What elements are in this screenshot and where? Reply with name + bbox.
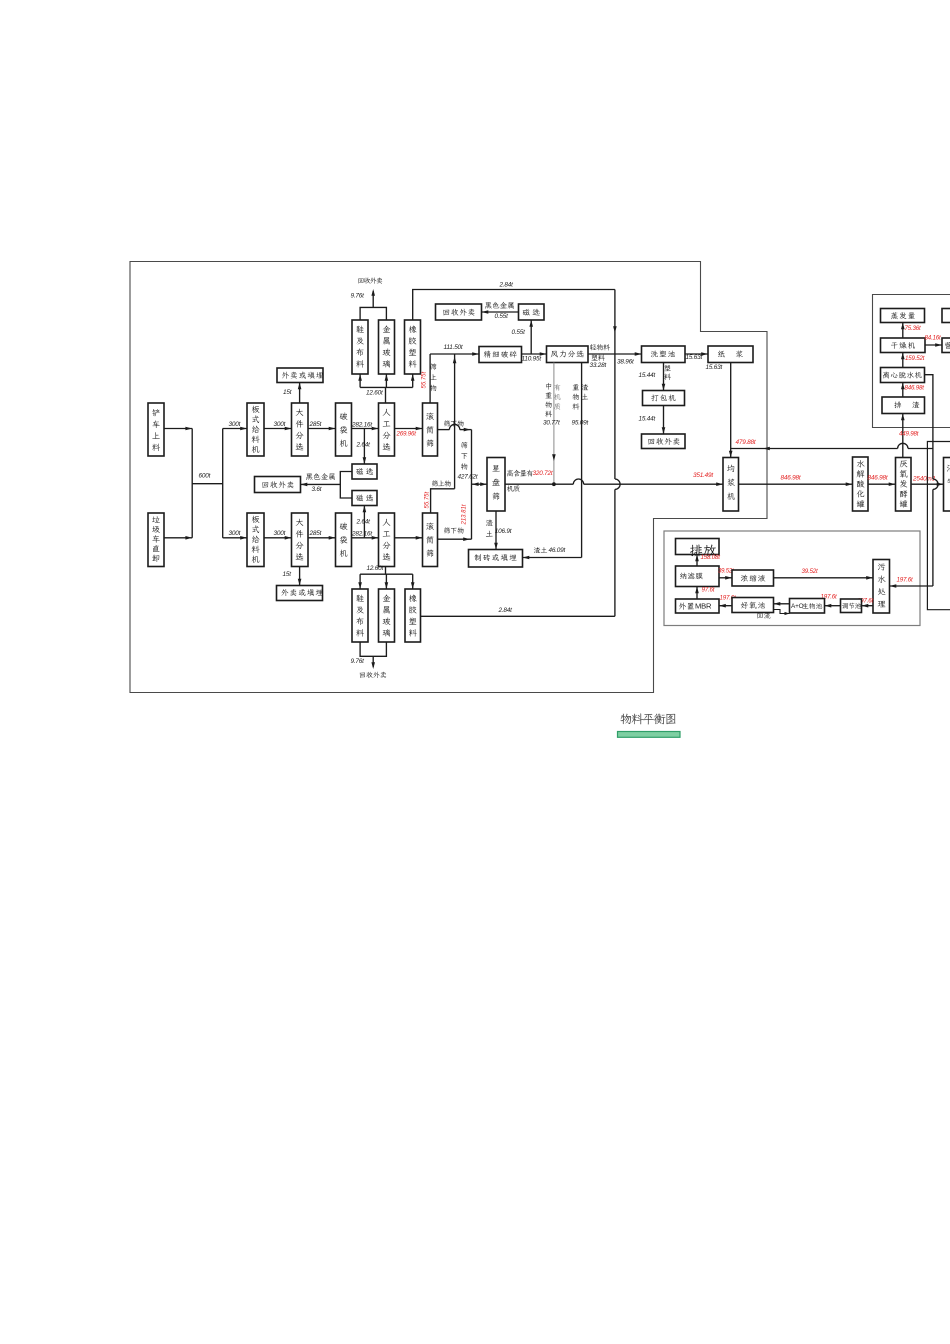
box 滚筒筛 bottom <box>423 513 438 567</box>
label 106.9t <box>495 528 512 535</box>
label 285t b <box>309 530 322 537</box>
label 110.95t <box>522 356 542 363</box>
box 星盘筛 <box>487 458 505 512</box>
svg-text:84.16t: 84.16t <box>925 335 941 342</box>
svg-text:269.96t: 269.96t <box>396 430 417 437</box>
wire 渣土 left into 制砖或填埋 <box>523 556 582 560</box>
svg-text:39.52t: 39.52t <box>802 568 818 575</box>
wire 污水处理 to 调节池 <box>862 604 874 608</box>
label 449.98t red <box>899 430 919 437</box>
wire arrow into 橡胶塑料 1 <box>411 374 415 387</box>
box 精细破碎 <box>479 347 522 363</box>
label 846.98t red c <box>905 384 925 391</box>
box 回收外卖 top2 <box>436 304 482 320</box>
svg-text:427.62t: 427.62t <box>458 474 478 481</box>
label 158.08t red <box>701 554 721 561</box>
svg-text:2.84t: 2.84t <box>498 607 513 614</box>
label 2540m3 red <box>912 476 936 483</box>
label 427.62t <box>458 474 478 481</box>
box 磁选 1 <box>352 464 377 479</box>
label 塑料 vertical <box>664 365 671 380</box>
label title 物料平衡图 <box>620 713 675 724</box>
wire sold arrow down bottom <box>371 656 375 669</box>
box 营养土 clipped <box>942 338 950 353</box>
label 黑色金属 top <box>485 302 514 309</box>
wire 垃圾车直卸 to merge <box>164 536 192 540</box>
box 橡胶塑料 1 <box>405 320 421 374</box>
wire main line 星盘筛 to 均浆机 <box>505 479 723 486</box>
wire 均浆机 to 水解酸化罐 <box>739 482 853 486</box>
svg-text:9.76t: 9.76t <box>351 658 365 665</box>
wire 橡胶塑料 2 right 2.84t <box>421 615 615 617</box>
box 好氧池 <box>732 598 774 613</box>
label 15.63t a <box>686 354 703 361</box>
wire 星盘筛 down 渣土 <box>494 511 498 550</box>
svg-text:282.16t: 282.16t <box>351 422 372 429</box>
label 39.52t red b <box>802 568 818 575</box>
panel wastewater treatment (bottom right) border <box>664 531 920 626</box>
wire 纳滤膜 to 排放 <box>695 555 699 567</box>
wire 水解酸化罐 to 厌氧发酵罐 <box>868 482 896 486</box>
box 垃圾车直卸 <box>148 513 164 567</box>
wire 人工分选 to 滚筒筛 top <box>395 427 423 431</box>
wire arrow into 鞋及布料 1 <box>358 374 362 387</box>
label 111.50t <box>444 344 463 351</box>
wire 离心脱水机 to 干燥机 <box>901 353 905 368</box>
label 回流 <box>757 612 770 618</box>
label 2.84t b <box>498 607 513 614</box>
label 75.36t red <box>905 325 921 332</box>
wire overs collector A <box>453 354 457 489</box>
wire arrow into 金属玻璃 1 <box>385 374 389 387</box>
box 破袋机 bottom <box>336 513 352 567</box>
svg-text:15.44t: 15.44t <box>639 416 656 423</box>
wire distributor top <box>360 386 413 388</box>
svg-text:479.88t: 479.88t <box>736 439 756 446</box>
wire 600t link <box>192 483 223 485</box>
wire 滚筒筛 2 overs staircase <box>431 489 455 513</box>
label 中重物料 vertical <box>545 383 552 417</box>
label 479.88t red <box>736 439 756 446</box>
box 制砖或填埋 <box>469 550 523 568</box>
wire arrow into 橡胶塑料 2 <box>411 574 415 589</box>
svg-text:300t: 300t <box>229 421 241 428</box>
svg-text:55.75t: 55.75t <box>424 491 430 508</box>
label 12.60t a <box>366 390 383 397</box>
svg-text:38.96t: 38.96t <box>617 358 634 365</box>
wire 大件分选 to 破袋机 bottom <box>308 536 336 540</box>
wire water return 479.88t <box>731 443 933 450</box>
box 破袋机 top <box>336 403 352 456</box>
box 滚筒筛 top <box>423 403 438 456</box>
label 渣土 vertical b <box>582 384 589 400</box>
label 高含量有机质 320.72t <box>507 470 553 492</box>
wire 滚筒筛 1 unders right <box>438 424 472 431</box>
panel sludge treatment (top right) border <box>873 295 950 428</box>
label 15.44t b <box>639 416 656 423</box>
label 55.75t red top <box>422 371 428 388</box>
box A+O生物池 <box>790 599 825 614</box>
svg-text:MBR: MBR <box>695 602 712 611</box>
wire 外置MBR to 纳滤膜 <box>695 587 699 600</box>
label 300t d <box>274 530 286 537</box>
label 38.96t <box>617 358 634 365</box>
box 蒸发量 neighbor clipped <box>942 309 950 323</box>
svg-text:97.6t: 97.6t <box>702 586 715 593</box>
box 大件分选 top <box>292 403 309 456</box>
box 打包机 <box>643 391 685 406</box>
svg-text:15.63t: 15.63t <box>686 354 703 361</box>
label 15.44t a <box>639 372 656 379</box>
wire 厌氧发酵罐 to 排渣 <box>901 414 905 458</box>
label 12.60t b <box>367 565 384 572</box>
box 离心脱水机 <box>881 368 925 383</box>
panel main process area border <box>130 262 767 693</box>
label 846.98t red b <box>868 474 888 481</box>
wire 人工分选 to 滚筒筛 bottom <box>395 536 423 540</box>
svg-text:159.52t: 159.52t <box>905 355 925 362</box>
box 调节池 <box>841 599 862 613</box>
wire 滚筒筛 1 overs up <box>429 354 431 403</box>
title underline green bar <box>618 732 681 738</box>
label 有机质 vertical <box>554 384 561 410</box>
svg-text:351.49t: 351.49t <box>693 472 713 479</box>
label 269.96t red <box>396 430 417 437</box>
svg-text:12.60t: 12.60t <box>367 565 384 572</box>
wire 滚筒筛 2 unders right <box>438 537 472 541</box>
wire 破袋机 to 人工分选 bottom <box>352 536 379 540</box>
wire arrow into 鞋及布料 2 <box>358 574 362 589</box>
svg-text:2540m3: 2540m3 <box>912 476 936 483</box>
box 人工分选 top <box>379 403 395 456</box>
label 300t c <box>229 530 241 537</box>
svg-text:320.72t: 320.72t <box>533 470 553 477</box>
box 回收外卖 mid <box>255 477 301 493</box>
wire merge vertical <box>191 429 193 538</box>
svg-text:2.64t: 2.64t <box>356 519 371 526</box>
label 15.63t b <box>706 364 723 371</box>
label 筛下物 bottom <box>444 527 463 534</box>
label 筛下物 top <box>444 420 463 427</box>
box 大件分选 bottom <box>292 513 309 567</box>
label 9.76t b <box>351 658 365 665</box>
wire 精细破碎 to 风力分选 <box>522 352 547 356</box>
label 15t b <box>283 571 292 578</box>
box 鞋及布料 1 <box>352 320 368 374</box>
wire 回流 return <box>774 610 790 616</box>
wire 纳滤膜 to 浓缩液 <box>719 576 732 580</box>
label 282.16t b <box>351 531 372 538</box>
wire sold arrow up top <box>371 289 375 307</box>
wire 风力分选 to 洗塑池 <box>588 352 642 356</box>
wire 鞋及布料+金属玻璃 bottoms join <box>360 642 386 656</box>
wire tap to 磁选 1 <box>363 429 367 465</box>
svg-text:846.98t: 846.98t <box>868 474 888 481</box>
label 回收外卖 top text <box>358 277 382 283</box>
label 300t a <box>229 421 241 428</box>
wire arrow into 金属玻璃 2 <box>385 574 389 589</box>
box 浓缩液 <box>732 570 774 586</box>
wire 橡胶塑料 1 up and right 2.84t <box>413 290 615 321</box>
wire 干燥机 to 蒸发量 <box>901 323 905 339</box>
wire split to 板式给料机 top <box>223 427 247 431</box>
label 筛上物 vertical top <box>430 363 437 391</box>
wire 人工分选 bottom stub down <box>385 567 387 575</box>
label 197.6t red e <box>857 598 873 605</box>
svg-text:15t: 15t <box>283 571 292 578</box>
svg-text:213.81t: 213.81t <box>461 504 467 525</box>
wire 打包机 to 回收外卖 <box>662 406 666 435</box>
label 0.55t b <box>512 329 526 336</box>
label 2.84t a <box>499 282 514 289</box>
wire 板式给料机 to 大件分选 bottom <box>264 536 292 540</box>
wire overs header to 精细破碎 <box>430 352 479 356</box>
box 排渣 <box>882 397 925 414</box>
label 9.76t a <box>351 293 365 300</box>
label 筛下物 vertical <box>461 442 467 470</box>
label 渣土 vertical a <box>486 519 493 536</box>
box 蒸发量 <box>881 309 925 323</box>
svg-text:197.6t: 197.6t <box>897 577 913 584</box>
svg-text:300t: 300t <box>229 530 241 537</box>
box 外置MBR <box>676 599 720 613</box>
wire water into 污水处理 <box>890 584 933 588</box>
box 橡胶塑料 2 <box>405 589 421 642</box>
label 15t a <box>283 389 292 396</box>
svg-text:95.09t: 95.09t <box>572 420 589 427</box>
wire 洗塑池 to 打包机 <box>662 363 666 391</box>
box 板式给料机 bottom <box>247 513 264 567</box>
box 磁选 top <box>519 304 545 320</box>
label 197.6t red b <box>702 586 715 593</box>
svg-text:15t: 15t <box>283 389 292 396</box>
label 351.49t red <box>693 472 713 479</box>
box 金属玻璃 2 <box>379 589 395 642</box>
wire 离心脱水机 water right-down <box>925 375 939 586</box>
svg-text:110.95t: 110.95t <box>522 356 542 363</box>
svg-text:449.98t: 449.98t <box>899 430 919 437</box>
wire 破袋机 to 人工分选 top <box>352 427 379 431</box>
label 285t a <box>309 421 322 428</box>
svg-text:285t: 285t <box>309 530 322 537</box>
wire 浓缩液 to 污水处理 <box>774 576 874 580</box>
wire A+O生物池 to 好氧池 <box>774 602 790 606</box>
label 197.6t red d <box>821 594 837 601</box>
wire plastics collector vertical <box>613 290 620 617</box>
svg-text:2.64t: 2.64t <box>356 442 371 449</box>
label 282.16t a <box>351 422 372 429</box>
label 筛上物 horizontal <box>432 480 451 487</box>
box 鞋及布料 2 <box>352 589 368 642</box>
wire tap to 磁选 2 <box>363 506 367 538</box>
box 污水处理 <box>873 560 890 614</box>
wire 大件分选 bottom to 外卖或填埋 <box>298 567 302 586</box>
box 纸浆 <box>708 346 753 363</box>
svg-text:300t: 300t <box>274 421 286 428</box>
svg-text:0.55t: 0.55t <box>495 313 509 320</box>
wire 大件分选 to 破袋机 top <box>308 427 336 431</box>
svg-text:282.16t: 282.16t <box>351 531 372 538</box>
box 厌氧发酵罐 <box>896 458 912 512</box>
box 风力分选 <box>547 346 589 363</box>
wire 磁选 pair to 回收外卖 <box>301 472 353 499</box>
svg-text:12.60t: 12.60t <box>366 390 383 397</box>
label 300t b <box>274 421 286 428</box>
label 渣土 46.09t <box>534 547 566 554</box>
svg-text:A+O: A+O <box>791 603 804 610</box>
svg-text:55.75t: 55.75t <box>422 371 428 388</box>
label 600t <box>199 473 211 480</box>
wire 洗塑池 to 纸浆 <box>685 352 708 356</box>
box 铲车上料 <box>148 403 164 456</box>
svg-text:285t: 285t <box>309 421 322 428</box>
wire 磁选 to 回收外卖 top <box>482 310 519 314</box>
wire 干燥机 to 营养土 <box>925 343 942 347</box>
label 846.98t red a <box>781 474 801 481</box>
svg-text:30.77t: 30.77t <box>543 420 560 427</box>
box 洗塑池 <box>642 346 686 363</box>
label 2.64t a <box>356 442 371 449</box>
svg-text:9.76t: 9.76t <box>351 293 365 300</box>
box 板式给料机 top <box>247 403 264 456</box>
box 沼气 right clipped <box>944 458 950 512</box>
label 轻物料塑料 33.28t <box>590 344 611 369</box>
svg-text:846.98t: 846.98t <box>905 384 925 391</box>
wire 板式给料机 to 大件分选 top <box>264 427 292 431</box>
label 回收外卖 bottom text <box>360 672 386 678</box>
label 84.16t red <box>925 335 941 342</box>
box 水解酸化罐 <box>853 457 869 511</box>
svg-text:75.36t: 75.36t <box>905 325 921 332</box>
svg-text:15.63t: 15.63t <box>706 364 723 371</box>
label 55.75t red bottom <box>424 491 430 508</box>
wire 纸浆 down to 均浆机 <box>729 363 733 458</box>
box 磁选 2 <box>352 491 377 506</box>
svg-text:600t: 600t <box>199 473 211 480</box>
svg-text:46.09t: 46.09t <box>549 547 566 554</box>
wire 厌氧发酵罐 to 沼气 box <box>911 482 944 486</box>
wire unders collector <box>472 430 479 540</box>
label 3.6t <box>312 486 322 493</box>
wire 铲车上料 to merge <box>164 427 192 431</box>
label 黑色金属 mid <box>306 473 335 480</box>
wire 人工分选 top stub up <box>385 387 387 403</box>
label 159.52t red <box>905 355 925 362</box>
wire 磁选 tap up <box>529 320 533 354</box>
wire 渣土 black down <box>581 363 583 558</box>
svg-text:0.55t: 0.55t <box>512 329 526 336</box>
box 金属玻璃 1 <box>379 320 395 374</box>
wire 鞋及布料+金属玻璃 tops join <box>360 307 386 320</box>
wire unders into 星盘筛 <box>472 482 488 486</box>
wire 排渣 to 离心脱水机 <box>901 383 905 398</box>
box 外卖或填埋 top <box>277 368 323 383</box>
wire distributor bottom <box>360 573 413 575</box>
svg-text:111.50t: 111.50t <box>444 344 463 351</box>
wire split vertical <box>222 429 224 538</box>
svg-text:3.6t: 3.6t <box>312 486 322 493</box>
box 人工分选 bottom <box>379 513 395 567</box>
label 95.09t <box>572 420 589 427</box>
label 39.52t red a <box>718 569 734 575</box>
label 2.64t b <box>356 519 371 526</box>
wire 大件分选 top to 外卖或填埋 <box>298 383 302 404</box>
wire 有机质 gray down <box>552 363 556 487</box>
box 外卖或填埋 bottom <box>277 586 323 601</box>
label 197.6t red a <box>897 577 913 584</box>
box 纳滤膜 <box>676 566 720 587</box>
box 均浆机 <box>723 458 739 512</box>
box 排放 <box>676 539 720 557</box>
label 0.55t a <box>495 313 509 320</box>
svg-text:2.84t: 2.84t <box>499 282 514 289</box>
label 197.6t red c <box>720 595 736 602</box>
svg-text:300t: 300t <box>274 530 286 537</box>
wire 好氧池 to 外置MBR <box>719 604 732 608</box>
label 重物料 vertical <box>572 384 579 410</box>
wire bypass line right <box>927 442 950 610</box>
wire split to 板式给料机 bottom <box>223 536 247 540</box>
label 213.81t red vertical <box>461 504 467 525</box>
label 30.77t <box>543 420 560 427</box>
box 干燥机 <box>881 338 926 353</box>
wire 调节池 to A+O生物池 <box>825 604 841 608</box>
svg-text:846.98t: 846.98t <box>781 474 801 481</box>
svg-text:15.44t: 15.44t <box>639 372 656 379</box>
box 回收外卖 right <box>642 434 686 449</box>
svg-text:158.08t: 158.08t <box>701 554 721 561</box>
svg-text:33.28t: 33.28t <box>590 362 607 369</box>
svg-text:106.9t: 106.9t <box>495 528 512 535</box>
